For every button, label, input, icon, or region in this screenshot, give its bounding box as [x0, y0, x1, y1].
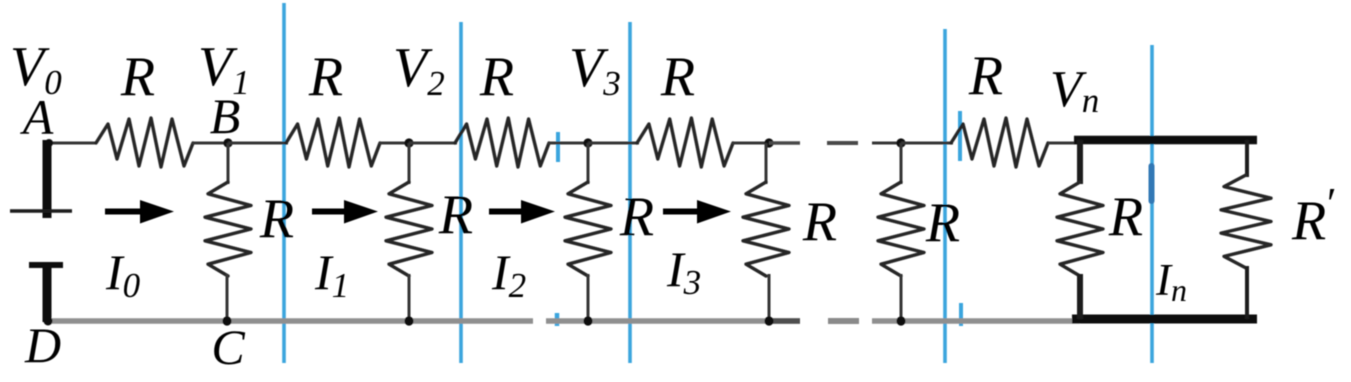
- thick bottom bus of output section: [1072, 315, 1257, 324]
- battery long thin plate: [10, 209, 72, 212]
- svg-text:V2: V2: [393, 37, 445, 103]
- output shunt R zigzag: [1057, 182, 1103, 276]
- terminating resistor R' zigzag: [1221, 175, 1271, 268]
- shunt resistor R4 zigzag: [743, 182, 789, 276]
- top wire R2 to V2: [379, 142, 410, 145]
- current arrow I3: [663, 209, 701, 215]
- thick top bus of output section (Vn): [1074, 136, 1257, 145]
- series resistor R2 (V1-V2): [286, 118, 380, 167]
- svg-text:Vn: Vn: [1050, 61, 1099, 120]
- blue tick on top wire near V3: [556, 132, 560, 162]
- top wire to R5: [901, 142, 953, 145]
- top wire R1 to B: [192, 142, 230, 145]
- svg-text:V3: V3: [569, 37, 621, 103]
- svg-text:R: R: [802, 191, 837, 253]
- node B / V1 junction dot: [223, 138, 232, 147]
- shunt resistor R1 (B-C) zigzag: [205, 182, 251, 276]
- shunt resistor R5 bottom lead: [900, 274, 903, 322]
- svg-text:R: R: [479, 46, 514, 108]
- series resistor R1 (A-B): [96, 118, 193, 167]
- battery negative electrode bar to D: [43, 264, 52, 322]
- top wire A to R1: [47, 142, 97, 145]
- svg-text:I2: I2: [491, 244, 526, 305]
- terminating resistor R' bottom stub: [1245, 266, 1249, 319]
- svg-text:R′: R′: [1291, 179, 1335, 252]
- shunt resistor R5 top lead: [900, 143, 903, 184]
- svg-text:R: R: [308, 46, 343, 108]
- node V3 junction dot: [583, 138, 592, 147]
- node A dot: [45, 139, 53, 147]
- svg-text:D: D: [24, 317, 61, 373]
- top wire V3 to R4: [588, 142, 639, 145]
- svg-text:A: A: [20, 89, 54, 145]
- junction dot after R4: [764, 138, 773, 147]
- shunt resistor R4 bottom junction dot: [764, 316, 773, 325]
- shunt resistor R2 bottom junction dot: [404, 316, 413, 325]
- svg-text:C: C: [211, 319, 245, 375]
- svg-text:R: R: [660, 46, 695, 108]
- junction dot before R5: [896, 138, 905, 147]
- shunt resistor R5 zigzag: [878, 182, 924, 276]
- top wire after dash: [872, 142, 903, 145]
- svg-text:R: R: [619, 186, 654, 248]
- svg-text:I1: I1: [314, 244, 349, 305]
- svg-text:R: R: [438, 184, 473, 246]
- svg-text:R: R: [259, 188, 294, 250]
- top wire stub before dashed break: [769, 141, 800, 144]
- series resistor R3 (V2-V3): [455, 118, 549, 167]
- svg-text:R: R: [968, 45, 1003, 107]
- ink blob on section line 5: [1149, 163, 1155, 204]
- shunt resistor R3 zigzag: [565, 182, 611, 276]
- output shunt R bottom stub: [1077, 274, 1083, 319]
- section line 4 (blue): [943, 29, 947, 363]
- battery short thick plate cap: [29, 262, 63, 268]
- section line 2 (blue): [459, 22, 463, 363]
- section line 1 (blue): [282, 3, 286, 363]
- blue tick crossing series resistor before Vn: [958, 111, 962, 161]
- shunt resistor R2 zigzag: [386, 182, 432, 276]
- bottom rail dash (continuation): [828, 318, 859, 324]
- shunt resistor R2 top lead: [408, 143, 411, 184]
- current arrow I0: [105, 209, 144, 215]
- output shunt R top stub: [1077, 140, 1083, 184]
- shunt resistor R5 bottom junction dot: [896, 316, 905, 325]
- bottom rail dark stub at I3 node: [769, 318, 800, 324]
- series resistor R5 (before Vn): [951, 118, 1048, 167]
- bottom rail right segment: [872, 318, 1080, 324]
- shunt resistor R4 bottom lead: [768, 274, 771, 322]
- bottom rail middle segment: [546, 318, 800, 324]
- shunt resistor R3 bottom junction dot: [583, 316, 592, 325]
- top wire V2 to R3: [409, 142, 457, 145]
- top wire R5 to Vn: [1048, 142, 1080, 145]
- shunt resistor R1 (B-C) bottom junction dot: [222, 316, 231, 325]
- top wire R4 to I3 node: [732, 142, 771, 145]
- blue tick on bottom rail near I2: [555, 313, 560, 326]
- battery positive electrode bar at node A: [43, 140, 52, 218]
- current arrow I2: [489, 209, 525, 215]
- terminating resistor R' top stub: [1245, 140, 1249, 177]
- svg-text:I3: I3: [666, 241, 701, 302]
- shunt resistor R4 top lead: [765, 143, 768, 184]
- top wire dash (continuation): [827, 141, 858, 145]
- bottom rail segment D to gap: [44, 318, 533, 324]
- section line 3 (blue): [628, 22, 632, 363]
- current arrow I1: [312, 209, 348, 215]
- top wire B to R2: [228, 142, 288, 145]
- node V2 junction dot: [404, 138, 413, 147]
- blue tick on bottom rail right of line 4: [959, 303, 963, 326]
- svg-text:R: R: [925, 192, 960, 254]
- svg-text:I0: I0: [105, 244, 141, 305]
- shunt resistor R3 top lead: [587, 143, 590, 184]
- shunt resistor R2 bottom lead: [408, 274, 411, 322]
- top wire R3 to V3: [548, 142, 589, 145]
- shunt resistor R1 (B-C) top lead: [227, 143, 230, 184]
- svg-text:R: R: [1108, 186, 1143, 248]
- section line 5 (blue): [1150, 45, 1154, 363]
- node D dot: [44, 317, 53, 326]
- svg-text:B: B: [210, 88, 241, 144]
- shunt resistor R1 (B-C) bottom lead: [226, 274, 229, 322]
- series resistor R4 (after V3): [637, 118, 733, 167]
- svg-text:R: R: [120, 46, 155, 108]
- shunt resistor R3 bottom lead: [587, 274, 590, 322]
- svg-text:In: In: [1155, 255, 1187, 308]
